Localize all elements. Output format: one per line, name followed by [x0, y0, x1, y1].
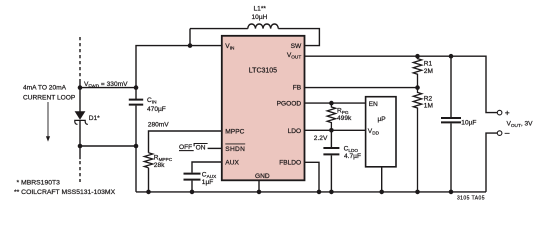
wire CLDO top lead	[330, 130, 332, 147]
svg-text:OFF: OFF	[179, 144, 192, 151]
svg-text:10µF: 10µF	[461, 119, 476, 126]
svg-text:LTC3105: LTC3105	[249, 68, 277, 75]
wire current-loop dashed top	[79, 37, 81, 80]
node junction on VIN wire	[188, 43, 193, 48]
arrow loop current direction	[47, 102, 49, 137]
svg-text:2M: 2M	[424, 68, 433, 75]
wire current-loop dashed bottom	[79, 161, 81, 182]
svg-text:1M: 1M	[424, 102, 433, 109]
node output minus terminal	[497, 131, 502, 136]
svg-text:EN: EN	[369, 101, 378, 108]
wire CAUX bottom lead	[191, 181, 193, 192]
wire D1 anode to VIN rail	[80, 87, 136, 89]
node ground rail junction at CIN column	[134, 144, 139, 149]
node D1 cathode junction	[78, 144, 83, 149]
svg-text:L1**: L1**	[254, 6, 267, 13]
diode D1 Schottky MBRS190T3	[75, 111, 86, 120]
wire D1 cathode to ground rail	[80, 145, 136, 147]
wire VIN riser	[189, 29, 191, 46]
capacitor CAUX	[184, 174, 201, 180]
inductor L1	[248, 24, 278, 29]
wire CIN bottom lead to ground rail	[135, 106, 137, 192]
wire D1 anode lead	[79, 80, 81, 112]
svg-text:FBLDO: FBLDO	[279, 160, 301, 167]
resistor RMPPC	[144, 153, 152, 168]
svg-text:GND: GND	[255, 173, 270, 180]
wire AUX pin to CAUX	[192, 162, 222, 173]
svg-text:AUX: AUX	[225, 159, 239, 166]
wire output capacitor bottom lead	[450, 123, 452, 191]
svg-text:* MBRS190T3: * MBRS190T3	[17, 180, 61, 187]
wire inductor to SW pin	[278, 29, 319, 46]
wire RMPPC bottom lead	[148, 168, 150, 192]
IC U1 LTC3105 body	[222, 36, 305, 181]
node PGOOD junction RPG	[329, 101, 334, 106]
wire FB pin to divider	[305, 87, 418, 89]
wire SHDN pin	[208, 147, 222, 149]
node D1 anode junction	[78, 85, 83, 90]
node ground junction FBLDO	[317, 190, 322, 195]
wire ground rail	[136, 191, 486, 193]
svg-text:2.2V: 2.2V	[314, 135, 328, 142]
wire µP ground lead	[381, 167, 383, 192]
svg-text:3105 TA05: 3105 TA05	[457, 196, 485, 202]
svg-text:FB: FB	[293, 84, 302, 91]
node LDO junction CLDO	[329, 128, 334, 133]
svg-text:MPPC: MPPC	[225, 128, 244, 135]
svg-text:280mV: 280mV	[148, 122, 169, 129]
wire VOUT rail to plus terminal	[305, 56, 498, 112]
node VIN rail junction	[134, 85, 139, 90]
svg-text:LDO: LDO	[288, 128, 302, 135]
node VOUT junction 10µF	[449, 54, 454, 59]
node ground junction RMPPC	[146, 190, 151, 195]
resistor R2	[413, 88, 421, 192]
svg-text:28k: 28k	[154, 162, 165, 169]
svg-text:4.7µF: 4.7µF	[344, 153, 361, 160]
wire VIN to CIN rail	[136, 46, 222, 99]
wire D1 cathode lead	[79, 121, 81, 159]
svg-text:ON: ON	[196, 144, 206, 151]
svg-text:470µF: 470µF	[147, 106, 166, 113]
node ground junction COUT	[449, 190, 454, 195]
svg-text:SW: SW	[291, 43, 302, 50]
node FB junction	[415, 85, 420, 90]
svg-text:4mA TO 20mA: 4mA TO 20mA	[23, 85, 67, 92]
svg-text:499k: 499k	[337, 115, 352, 122]
node ground junction µP	[379, 190, 384, 195]
svg-text:1µF: 1µF	[202, 179, 214, 186]
svg-text:CURRENT LOOP: CURRENT LOOP	[23, 94, 76, 101]
wire LDO pin to µP VDD	[305, 129, 366, 131]
node ground junction CLDO	[329, 190, 334, 195]
capacitor COUT 10µF	[441, 118, 461, 122]
svg-text:–: –	[505, 127, 510, 137]
svg-text:** COILCRAFT MSS5131-103MX: ** COILCRAFT MSS5131-103MX	[14, 189, 116, 196]
wire FBLDO pin to ground	[305, 162, 320, 192]
wire output capacitor top lead	[450, 56, 452, 117]
node ground junction R2	[415, 190, 420, 195]
node VOUT junction R1	[415, 54, 420, 59]
svg-text:+: +	[505, 108, 510, 118]
capacitor CIN	[129, 100, 143, 105]
wire top run from VIN riser to inductor	[190, 28, 248, 30]
svg-text:R1: R1	[424, 60, 433, 67]
wire GND pin lead	[258, 180, 260, 192]
svg-text:SHDN: SHDN	[225, 146, 245, 153]
resistor R1	[413, 56, 421, 87]
node ground junction CAUX	[190, 190, 195, 195]
resistor RPG	[327, 103, 335, 130]
svg-text:D1*: D1*	[89, 115, 100, 122]
wire PGOOD pin to µP EN	[305, 102, 366, 104]
wire ground rail to minus terminal	[486, 133, 497, 192]
capacitor CLDO	[323, 148, 339, 154]
microprocessor block U2 µP	[366, 97, 396, 167]
wire MPPC pin to RMPPC	[149, 131, 222, 153]
node ground junction GND pin	[257, 190, 262, 195]
svg-text:µP: µP	[378, 116, 387, 123]
svg-text:10µH: 10µH	[252, 14, 268, 21]
svg-text:PGOOD: PGOOD	[277, 100, 302, 107]
node output plus terminal	[497, 110, 502, 115]
wire CLDO bottom lead	[330, 155, 332, 192]
